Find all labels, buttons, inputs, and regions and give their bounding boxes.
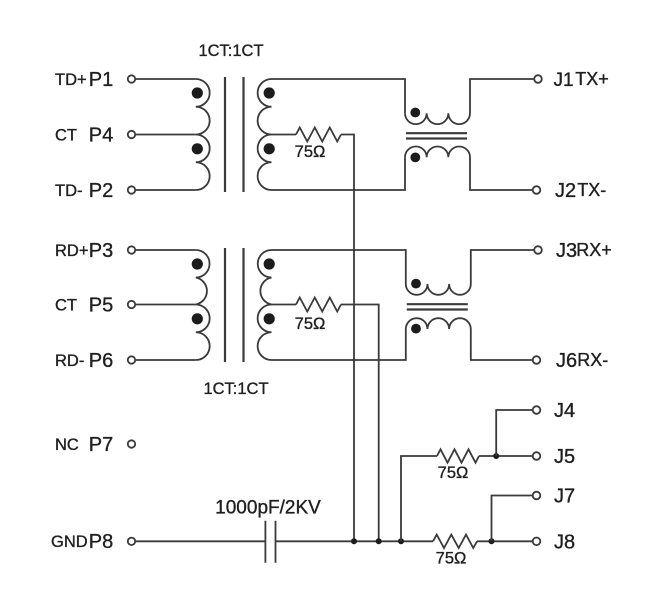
junction dot bus at R3 leg bbox=[398, 538, 404, 544]
terminal P6 bbox=[128, 356, 135, 363]
resistor R4 75ohm J7/J8 bbox=[433, 535, 477, 548]
svg-text:1CT:1CT: 1CT:1CT bbox=[198, 42, 263, 60]
wire junction up to J4 bbox=[496, 410, 532, 456]
choke T2 top winding bbox=[405, 79, 534, 124]
wire T1 secondary bottom to choke T2 bbox=[272, 157, 406, 190]
choke T4 top winding bbox=[406, 250, 534, 295]
svg-text:J3: J3 bbox=[556, 240, 577, 262]
svg-text:P1: P1 bbox=[89, 69, 113, 91]
resistor R3 75ohm J4/J5 bbox=[437, 449, 479, 462]
transformer T1 primary winding bbox=[196, 79, 210, 190]
svg-text:TX-: TX- bbox=[577, 180, 606, 200]
terminal P5 bbox=[128, 301, 135, 308]
transformer T1 core bbox=[225, 77, 244, 192]
svg-text:P5: P5 bbox=[89, 295, 113, 317]
transformer T1 secondary dot top bbox=[264, 87, 275, 98]
terminal P3 bbox=[128, 246, 135, 253]
wire junction up to J7 bbox=[492, 496, 533, 542]
wire R4 to J8 bbox=[477, 540, 532, 542]
terminal P8 bbox=[128, 538, 135, 545]
svg-text:TD+: TD+ bbox=[55, 71, 87, 89]
terminal P4 bbox=[128, 131, 135, 138]
junction dot at J4/J5 split bbox=[493, 453, 499, 459]
wire T1 center tap to R1 bbox=[272, 134, 297, 136]
wire R1 to bottom bus bbox=[341, 135, 354, 542]
transformer T1 primary dot top bbox=[192, 87, 203, 98]
svg-text:75Ω: 75Ω bbox=[438, 464, 469, 482]
resistor R1 75ohm TX center tap bbox=[296, 128, 341, 142]
choke T4 bottom dot bbox=[411, 324, 421, 334]
choke T2 top dot bbox=[410, 108, 420, 118]
svg-text:1CT:1CT: 1CT:1CT bbox=[203, 380, 268, 398]
resistor R2 75ohm RX center tap bbox=[296, 298, 341, 312]
choke T2 bottom winding bbox=[405, 146, 532, 190]
transformer T1 secondary dot bottom bbox=[264, 143, 275, 154]
transformer T3 secondary winding bbox=[258, 250, 272, 360]
wire P3 to T3 bbox=[136, 249, 196, 251]
junction dot bus at TX vertical bbox=[351, 538, 357, 544]
wire capacitor to bus / bottom bus bbox=[276, 540, 434, 542]
svg-text:J8: J8 bbox=[554, 531, 575, 553]
choke T2 bottom dot bbox=[410, 153, 420, 163]
svg-text:75Ω: 75Ω bbox=[295, 143, 326, 161]
wire T3 secondary bottom to choke T4 bbox=[272, 329, 406, 360]
svg-text:P8: P8 bbox=[89, 531, 113, 553]
transformer T3 core bbox=[225, 248, 244, 362]
wire P4 to T1 bbox=[136, 134, 196, 136]
terminal P7 (no connect) bbox=[128, 440, 135, 447]
svg-text:P3: P3 bbox=[89, 240, 113, 262]
transformer T3 primary dot top bbox=[192, 258, 203, 269]
svg-text:CT: CT bbox=[55, 297, 77, 315]
svg-text:J4: J4 bbox=[554, 400, 575, 422]
wire T3 secondary top to choke T4 bbox=[272, 250, 406, 284]
terminal J4 bbox=[533, 406, 541, 414]
terminal J8 bbox=[533, 538, 541, 546]
svg-text:TX+: TX+ bbox=[575, 69, 609, 89]
terminal P1 bbox=[128, 75, 135, 82]
wire R2 to bottom bus bbox=[341, 305, 379, 542]
choke T4 core bbox=[407, 304, 468, 309]
wire P6 to T3 bbox=[136, 359, 196, 361]
svg-text:J5: J5 bbox=[554, 446, 575, 468]
svg-text:RX-: RX- bbox=[577, 350, 608, 370]
svg-text:NC: NC bbox=[55, 436, 79, 454]
transformer T3 primary dot bottom bbox=[192, 313, 203, 324]
svg-text:P7: P7 bbox=[89, 434, 113, 456]
svg-text:J7: J7 bbox=[554, 486, 575, 508]
svg-text:P4: P4 bbox=[89, 125, 113, 147]
wire P8 to capacitor C1 bbox=[136, 540, 266, 542]
terminal J3 bbox=[534, 246, 542, 254]
transformer T1 primary dot bottom bbox=[192, 143, 203, 154]
wire R3 to J5 bbox=[479, 455, 532, 457]
terminal J2 bbox=[533, 186, 541, 194]
junction dot bus at RX vertical bbox=[376, 538, 382, 544]
wire T1 secondary top to choke T2 bbox=[272, 79, 406, 113]
wire bus to R3 leg up bbox=[401, 456, 437, 541]
svg-text:GND: GND bbox=[51, 533, 88, 551]
capacitor C1 plates bbox=[265, 521, 275, 563]
choke T4 top dot bbox=[411, 279, 421, 289]
wire P5 to T3 bbox=[136, 304, 196, 306]
svg-text:RD+: RD+ bbox=[55, 242, 88, 260]
svg-text:RD-: RD- bbox=[55, 352, 84, 370]
svg-text:J6: J6 bbox=[556, 350, 577, 372]
svg-text:P2: P2 bbox=[89, 180, 113, 202]
svg-text:TD-: TD- bbox=[55, 182, 83, 200]
junction dot at J7/J8 split bbox=[489, 538, 495, 544]
svg-text:75Ω: 75Ω bbox=[436, 550, 467, 568]
svg-text:1000pF/2KV: 1000pF/2KV bbox=[215, 498, 321, 519]
wire T3 center tap to R2 bbox=[272, 304, 297, 306]
transformer T3 primary winding bbox=[196, 250, 210, 360]
svg-text:75Ω: 75Ω bbox=[295, 315, 326, 333]
choke T4 bottom winding bbox=[406, 318, 532, 360]
terminal J7 bbox=[533, 492, 541, 500]
transformer T1 secondary winding bbox=[258, 79, 272, 190]
wire P2 to T1 bbox=[136, 189, 196, 191]
transformer T3 secondary dot bottom bbox=[264, 313, 275, 324]
wire P1 to T1 bbox=[136, 78, 196, 80]
svg-text:CT: CT bbox=[55, 127, 77, 145]
terminal J1 bbox=[534, 75, 542, 83]
svg-text:RX+: RX+ bbox=[576, 240, 612, 260]
svg-text:J1: J1 bbox=[554, 70, 574, 91]
transformer T3 secondary dot top bbox=[264, 258, 275, 269]
terminal J5 bbox=[533, 452, 541, 460]
svg-text:J2: J2 bbox=[555, 180, 576, 202]
terminal J6 bbox=[533, 356, 541, 364]
choke T2 core bbox=[406, 133, 467, 138]
svg-text:P6: P6 bbox=[89, 350, 113, 372]
terminal P2 bbox=[128, 186, 135, 193]
